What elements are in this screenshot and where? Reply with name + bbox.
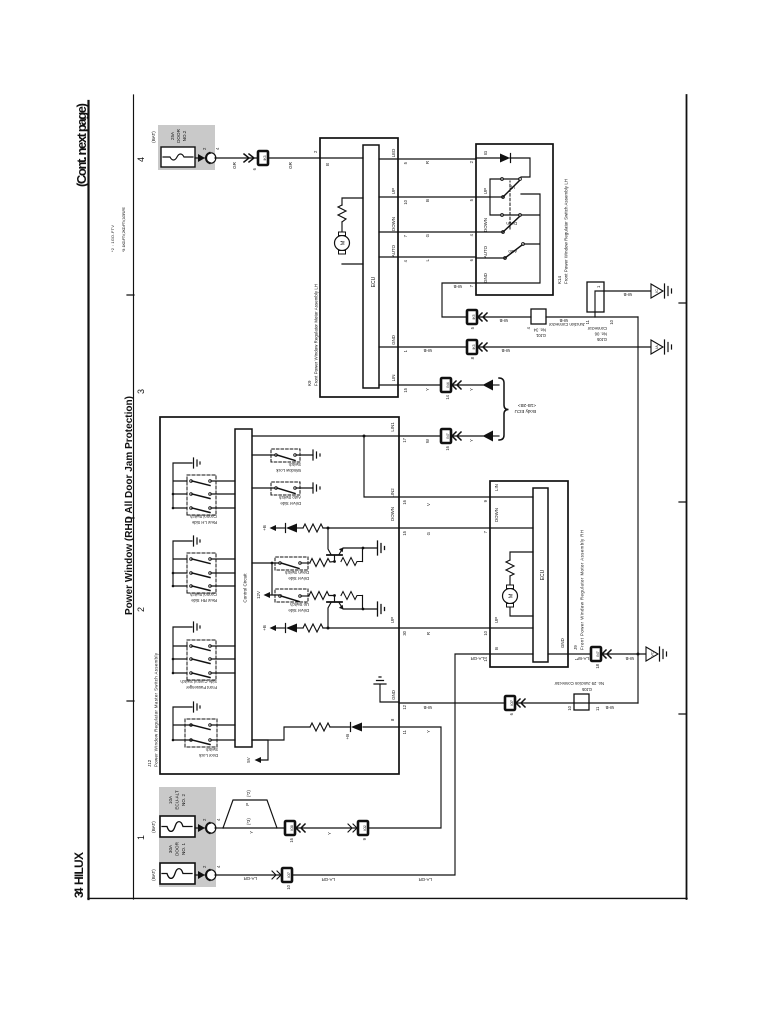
diode D-b — [351, 723, 362, 732]
svg-text:P: P — [245, 803, 250, 806]
wire emitter Q-up — [339, 603, 363, 610]
ground IA — [651, 340, 663, 354]
svg-text:Switch: Switch — [205, 747, 218, 752]
svg-text:K9: K9 — [307, 380, 312, 386]
svg-text:30A: 30A — [168, 844, 173, 853]
left border — [88, 897, 687, 899]
svg-text:Y: Y — [469, 439, 474, 442]
svg-text:Down: Down — [506, 221, 517, 226]
wire B internal — [320, 157, 363, 159]
svg-text:15: 15 — [402, 530, 407, 535]
wire variant *3 direct — [223, 827, 285, 829]
svg-text:GJ05: GJ05 — [581, 687, 592, 692]
svg-text:Power Window Regulator Master: Power Window Regulator Master Switch Ass… — [154, 652, 159, 767]
J12 box — [160, 417, 399, 774]
connector IO7 fuse chevrons — [272, 871, 281, 879]
svg-text:W-B: W-B — [605, 705, 614, 710]
svg-text:DOWN: DOWN — [391, 217, 396, 231]
svg-text:W-B: W-B — [501, 348, 510, 353]
svg-text:Rear RH Side: Rear RH Side — [190, 598, 217, 603]
node LIN1-LIN2 junction — [363, 435, 366, 438]
svg-text:VC: VC — [651, 651, 655, 657]
svg-text:IO7: IO7 — [510, 700, 514, 706]
svg-text:UP: UP — [494, 617, 499, 623]
wire collector Q-down — [328, 528, 331, 555]
connector IO2 chevrons — [348, 824, 357, 832]
svg-text:IN7: IN7 — [596, 651, 600, 656]
svg-text:R: R — [425, 161, 430, 164]
connector IN7 rh — [591, 647, 601, 661]
svg-text:DOWN: DOWN — [494, 508, 499, 522]
svg-text:ECU-ALT: ECU-ALT — [175, 790, 180, 810]
svg-text:IO7: IO7 — [287, 872, 291, 878]
svg-text:Driver Side: Driver Side — [288, 576, 309, 581]
svg-text:Front Power Window Regulator M: Front Power Window Regulator Motor Assem… — [580, 530, 585, 650]
svg-text:No. 34: No. 34 — [533, 328, 546, 333]
wire bus horizontal — [637, 317, 639, 703]
wire Y fuse ECU-ALT split — [215, 827, 223, 829]
svg-text:LED: LED — [391, 149, 396, 158]
wire LA-GR to J9 B — [292, 654, 490, 875]
svg-text:IA: IA — [655, 345, 659, 349]
svg-text:3: 3 — [136, 389, 146, 394]
ground IC — [651, 284, 663, 298]
top zone ruler — [133, 95, 135, 899]
svg-text:GR: GR — [232, 161, 237, 169]
wire to arrow — [451, 435, 483, 437]
junction connector GJ05 No.29 — [574, 694, 589, 710]
svg-text:B: B — [425, 199, 430, 202]
switch driver side down — [252, 557, 335, 581]
switch group front passenger side control switch — [172, 622, 235, 690]
wire W-B to ground VC — [601, 653, 646, 655]
motor branch J9 — [510, 552, 533, 616]
svg-text:(*2): (*2) — [246, 790, 251, 797]
switch group door lock switch — [172, 702, 235, 758]
svg-text:W-B: W-B — [559, 318, 568, 323]
svg-text:G: G — [426, 531, 431, 535]
svg-text:Y: Y — [425, 388, 430, 391]
svg-text:34: 34 — [72, 887, 86, 898]
ECU U-J9 — [533, 488, 548, 662]
contacts — [190, 507, 193, 510]
wire J9 GND LA-W — [568, 653, 591, 655]
svg-text:No. 29 Junction Connector: No. 29 Junction Connector — [554, 681, 604, 686]
connector chevrons — [244, 154, 254, 162]
fuse block gray box ECU-ALT — [159, 787, 216, 887]
arrow to body ECU — [483, 380, 494, 391]
svg-text:B: B — [494, 647, 499, 650]
svg-text:30: 30 — [402, 630, 407, 635]
wire to arrow — [451, 384, 483, 386]
connector IN7 — [441, 429, 451, 443]
svg-text:11: 11 — [595, 706, 600, 711]
svg-text:(BAT): (BAT) — [151, 821, 156, 833]
svg-text:(BAT): (BAT) — [151, 131, 156, 143]
connector circle — [198, 154, 205, 162]
svg-text:GND: GND — [391, 690, 396, 700]
svg-text:14: 14 — [445, 394, 450, 399]
svg-text:16: 16 — [445, 445, 450, 450]
svg-text:Driver Side: Driver Side — [288, 608, 309, 613]
junction connector GJ01 No.34 — [531, 309, 546, 324]
fuse 25A DOOR NO.2 — [161, 147, 195, 167]
wire collector Q-up — [328, 603, 331, 629]
svg-text:16: 16 — [402, 499, 407, 504]
fuse 30A DOOR NO.1 — [160, 863, 195, 884]
control circuit CC — [235, 429, 252, 747]
ground driver auto — [313, 483, 320, 493]
svg-text:IC: IC — [655, 289, 659, 293]
svg-text:W-B: W-B — [423, 705, 432, 710]
connector IO2 — [358, 821, 368, 835]
svg-text:W-B: W-B — [453, 284, 462, 289]
ruler tick — [127, 295, 134, 701]
wire UP R — [399, 627, 490, 629]
wire K14 GND pin7 external — [442, 283, 476, 317]
svg-text:IN4: IN4 — [446, 382, 450, 387]
svg-text:(BAT): (BAT) — [151, 869, 156, 881]
resistor R-e-down — [341, 558, 363, 566]
switch group rear LH side control switch — [172, 458, 235, 525]
svg-text:Front Power Window Regulator S: Front Power Window Regulator Switch Asse… — [564, 179, 569, 284]
svg-text:Auto: Auto — [508, 249, 517, 254]
svg-text:LA-GR: LA-GR — [419, 877, 432, 882]
svg-text:Y: Y — [469, 388, 474, 391]
svg-text:LA-GR: LA-GR — [471, 656, 484, 661]
svg-text:Switch: Switch — [288, 462, 301, 467]
switch driver side up — [275, 589, 335, 613]
top rule — [87, 101, 89, 899]
ground door lock — [194, 702, 201, 712]
resistor R-up — [303, 624, 323, 632]
svg-text:ECU: ECU — [540, 569, 546, 580]
wire Y between connectors — [295, 827, 357, 829]
wire LIN2 V — [399, 496, 490, 498]
svg-text:B: B — [325, 163, 330, 166]
svg-text:GND: GND — [560, 638, 565, 648]
K14 box — [476, 144, 553, 295]
svg-text:LA-GR: LA-GR — [244, 876, 257, 881]
switch down SW-DOWN — [476, 231, 502, 233]
svg-text:GND: GND — [391, 335, 396, 345]
switch up SW-UP — [476, 196, 502, 198]
wire K9 LIN — [398, 384, 441, 386]
wire variant *2 P bump — [223, 800, 277, 828]
svg-text:IK5: IK5 — [472, 314, 476, 319]
ground front passenger — [194, 622, 201, 632]
svg-text:+B: +B — [262, 625, 267, 631]
resistor R-K9 — [338, 205, 346, 222]
svg-text:Down Switch: Down Switch — [284, 570, 309, 575]
svg-text:AUTO: AUTO — [391, 244, 396, 257]
svg-text:GJ01: GJ01 — [535, 333, 546, 338]
wire motor branch — [342, 198, 363, 264]
connector IK3 — [258, 151, 268, 165]
svg-text:W-B: W-B — [499, 318, 508, 323]
connector IK5 — [467, 310, 477, 324]
ground window lock — [313, 450, 320, 460]
svg-text:Connector: Connector — [587, 326, 607, 331]
svg-text:GR: GR — [288, 161, 293, 169]
svg-text:<1B-2B>: <1B-2B> — [518, 403, 536, 408]
svg-text:No. 06: No. 06 — [594, 332, 607, 337]
svg-text:LA-GR: LA-GR — [322, 877, 335, 882]
svg-text:LIN1: LIN1 — [390, 422, 395, 432]
svg-text:M: M — [509, 593, 515, 598]
svg-text:+B: +B — [262, 525, 267, 531]
svg-text:Y: Y — [327, 832, 332, 835]
svg-text:M: M — [341, 240, 347, 245]
connector IO8 — [285, 821, 295, 835]
svg-text:UP: UP — [483, 188, 488, 194]
svg-text:HILUX: HILUX — [72, 852, 86, 885]
svg-text:IO2: IO2 — [363, 825, 367, 831]
connector IO7 — [505, 696, 515, 710]
svg-text:17: 17 — [402, 437, 407, 442]
svg-text:IG: IG — [483, 150, 488, 155]
svg-text:10: 10 — [609, 319, 614, 324]
svg-text:V: V — [426, 503, 431, 506]
svg-text:*3 : 1KD-FTV, 2KD-FTV, 1GR-FE: *3 : 1KD-FTV, 2KD-FTV, 1GR-FE — [121, 207, 126, 252]
svg-text:W-B: W-B — [623, 292, 632, 297]
diode D-up — [285, 624, 287, 633]
wire base Q-up — [334, 596, 336, 602]
ground J12 internal — [374, 677, 386, 684]
transistor Q-up — [327, 592, 385, 629]
internal pin wires — [490, 497, 568, 654]
switch driver side auto — [252, 482, 320, 506]
diode D-K14 — [476, 157, 500, 159]
J9 box — [490, 481, 568, 667]
switch auto SW-AUTO — [476, 257, 504, 259]
svg-text:10: 10 — [567, 705, 572, 710]
svg-text:UP: UP — [391, 188, 396, 194]
svg-text:DOOR: DOOR — [175, 841, 180, 855]
svg-text:J9: J9 — [573, 645, 578, 650]
resistor R-e-up — [341, 592, 363, 600]
wire fuse to connector — [195, 157, 207, 159]
svg-text:12: 12 — [402, 704, 407, 709]
svg-text:11: 11 — [585, 319, 590, 324]
svg-text:R: R — [426, 632, 431, 635]
svg-text:Side Control Switch: Side Control Switch — [180, 679, 217, 684]
wire IO7 to J12 GND — [399, 702, 505, 704]
svg-text:DOWN: DOWN — [390, 507, 395, 521]
svg-text:10: 10 — [483, 630, 488, 635]
svg-text:LIN2: LIN2 — [390, 488, 395, 498]
diode D-down — [285, 524, 287, 533]
svg-text:NO. 2: NO. 2 — [181, 794, 186, 806]
svg-text:IK3: IK3 — [263, 155, 267, 160]
ground Q-up — [378, 602, 385, 616]
wire emitter Q-down — [339, 548, 363, 555]
svg-text:ECU: ECU — [371, 276, 377, 287]
svg-text:Control Switch: Control Switch — [189, 514, 217, 519]
svg-text:Y: Y — [426, 730, 431, 733]
ground rear RH — [194, 536, 201, 546]
svg-text:12V: 12V — [256, 591, 261, 599]
svg-text:G: G — [425, 233, 430, 237]
svg-text:NO. 1: NO. 1 — [181, 843, 186, 855]
svg-text:10: 10 — [286, 884, 291, 889]
internal pin wires to ECU — [379, 159, 398, 385]
svg-text:LIN: LIN — [494, 484, 499, 491]
wire LIN1 internal — [252, 435, 399, 437]
svg-text:Control Circuit: Control Circuit — [243, 573, 248, 603]
wire Y to J12 pin 11 — [368, 727, 441, 828]
wire R2 tie Q-down — [363, 548, 378, 562]
svg-text:DOWN: DOWN — [483, 218, 488, 232]
svg-text:11: 11 — [402, 729, 407, 734]
mechanical link dashed — [509, 181, 511, 229]
svg-text:GJ05: GJ05 — [596, 337, 607, 342]
svg-text:Front Passenger: Front Passenger — [185, 685, 217, 690]
svg-text:IN7: IN7 — [446, 433, 450, 438]
svg-text:16: 16 — [289, 837, 294, 842]
svg-text:Control Switch: Control Switch — [189, 592, 217, 597]
svg-text:Door Lock: Door Lock — [198, 753, 218, 758]
gnd bus K14 — [476, 194, 540, 283]
fuse 10A ECU-ALT NO.2 — [160, 816, 195, 837]
ECU U-K9 — [363, 145, 379, 388]
svg-text:18: 18 — [595, 663, 600, 668]
resistor R-b — [310, 723, 330, 731]
junction connector GJ05 No.06 — [587, 282, 604, 312]
wires K9 to K14 — [398, 159, 476, 257]
svg-text:*2 : 1GD-FTV: *2 : 1GD-FTV — [110, 225, 115, 252]
brace to Body ECU — [499, 378, 509, 440]
svg-text:10A: 10A — [168, 795, 173, 804]
svg-text:(*3): (*3) — [246, 818, 251, 825]
wire base Q-down — [334, 555, 336, 561]
ground VC — [646, 647, 658, 661]
resistor R-J9 — [506, 560, 514, 576]
wire bus to GJ05-29 — [589, 702, 638, 704]
motor M-K9 — [335, 236, 350, 251]
svg-text:25A: 25A — [170, 131, 175, 140]
wire J12 LIN1 — [399, 435, 441, 437]
svg-text:10: 10 — [403, 199, 408, 204]
svg-text:IO8: IO8 — [290, 825, 294, 831]
ruler tick bottom — [679, 303, 686, 714]
svg-text:Y: Y — [249, 831, 254, 834]
svg-text:Body ECU: Body ECU — [515, 409, 536, 414]
wire DOWN G — [399, 527, 490, 529]
wire GND internal — [380, 685, 399, 702]
svg-text:Driver Side: Driver Side — [280, 501, 301, 506]
svg-text:+B: +B — [345, 734, 350, 740]
svg-text:Up Switch: Up Switch — [289, 602, 309, 607]
wire W-B to ground IA — [477, 346, 651, 348]
svg-text:K14: K14 — [557, 275, 562, 284]
svg-text:15: 15 — [403, 387, 408, 392]
svg-text:2: 2 — [136, 607, 146, 612]
wire GJ05 pin1 to ground — [604, 290, 651, 292]
svg-text:AUTO: AUTO — [483, 245, 488, 258]
svg-text:IK3: IK3 — [472, 344, 476, 349]
wire LA-GR fuse DOOR NO.1 — [215, 874, 285, 876]
svg-text:W-B: W-B — [625, 656, 634, 661]
svg-text:(Cont. next page): (Cont. next page) — [74, 103, 89, 187]
up output branch — [262, 624, 399, 633]
connector IO7 fuse — [282, 868, 292, 882]
wire K9 GND to IK3b — [398, 346, 467, 348]
wire W-B to GJ01 — [477, 316, 531, 318]
K9 box — [320, 138, 398, 397]
wire R2 tie Q-up — [363, 596, 378, 610]
arrow to body ECU — [483, 431, 494, 442]
svg-text:Auto Switch: Auto Switch — [278, 495, 301, 500]
wire GJ01 to GJ05 — [546, 316, 638, 318]
switch window lock — [252, 449, 320, 473]
svg-text:4: 4 — [136, 157, 146, 162]
svg-text:LIN: LIN — [391, 375, 396, 382]
connector IK3 gnd — [467, 340, 477, 354]
down output branch — [262, 524, 399, 533]
ground Q-down — [378, 541, 385, 555]
motor M-J9 — [503, 589, 518, 604]
svg-text:DOOR: DOOR — [176, 128, 181, 142]
connector IN4 — [441, 378, 451, 392]
svg-text:Front Power Window Regulator M: Front Power Window Regulator Motor Assem… — [314, 284, 319, 386]
switch group rear RH side control switch — [172, 536, 235, 603]
wire GJ05-29 to IO7 — [515, 702, 574, 704]
transistor Q-down — [327, 528, 385, 566]
svg-text:Window Lock: Window Lock — [275, 468, 301, 473]
ground rear LH — [194, 458, 201, 468]
fuse block gray box — [158, 125, 215, 170]
svg-text:GND: GND — [483, 273, 488, 283]
svg-text:NO.2: NO.2 — [182, 130, 187, 141]
svg-text:J12: J12 — [147, 759, 152, 767]
resistor R-down — [303, 524, 323, 532]
svg-text:LA-W: LA-W — [577, 656, 589, 661]
svg-text:1: 1 — [136, 835, 146, 840]
svg-text:W-B: W-B — [423, 348, 432, 353]
svg-text:Rear LH Side: Rear LH Side — [191, 520, 217, 525]
bottom zone ruler — [686, 95, 688, 899]
wire GR fuse to K9 — [215, 157, 320, 159]
resistor R-base-down — [310, 559, 335, 567]
node bus junction — [637, 653, 640, 656]
resistor R-base-up — [309, 592, 335, 600]
wire +B internal — [363, 726, 399, 728]
wire LIN2 internal — [364, 436, 399, 497]
svg-text:UP: UP — [390, 617, 395, 623]
svg-text:5V: 5V — [246, 757, 251, 762]
